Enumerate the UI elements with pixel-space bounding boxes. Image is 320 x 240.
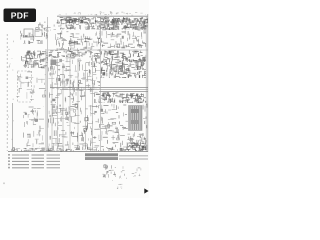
wire left column bus xyxy=(45,49,47,151)
wire right border inner xyxy=(145,16,147,152)
wire horizontal bus A xyxy=(50,87,148,89)
resistor row R1-R12 xyxy=(57,24,148,30)
antenna input wiring xyxy=(20,28,48,45)
parts list row 4 xyxy=(8,164,60,166)
legend symbol column 2 xyxy=(120,166,127,179)
schematic title text bars xyxy=(85,153,118,160)
CRT socket wiring xyxy=(127,132,146,150)
wire left vertical bus xyxy=(12,103,14,151)
wire mid horizontal divider xyxy=(48,49,148,51)
legend footnote marks xyxy=(117,184,122,189)
RGB output cluster xyxy=(101,60,147,78)
legend symbol column 1 xyxy=(102,165,116,181)
PDF badge xyxy=(4,9,37,23)
page margin mark xyxy=(3,183,5,185)
AGC stage Q1 cluster xyxy=(22,50,49,68)
video driver Q2 area xyxy=(16,72,46,100)
colour demodulator row xyxy=(101,50,146,62)
chroma stage dense band xyxy=(49,50,100,57)
svg-text:PDF: PDF xyxy=(11,11,29,21)
tuner input cluster xyxy=(38,22,56,30)
wire vertical bus 1 xyxy=(51,55,53,149)
top edge pin labels xyxy=(59,12,146,16)
parts list row 5 xyxy=(8,167,60,169)
wire top border xyxy=(57,15,148,17)
wire centre divider xyxy=(47,17,49,151)
left margin ticks xyxy=(8,41,14,140)
audio output stage xyxy=(100,31,146,48)
IF amplifier stage T1 coils xyxy=(57,17,148,24)
wire vertical bus 2 xyxy=(57,59,59,149)
wire left dashed border xyxy=(6,34,8,151)
flyback transformer T3 xyxy=(129,106,143,131)
video IF wiring band xyxy=(56,31,100,51)
horizontal drive area xyxy=(100,104,128,150)
wire horizontal bus B xyxy=(60,89,148,91)
shield box dashed xyxy=(18,71,32,102)
output stage dense cluster xyxy=(128,142,146,151)
EHT cage area xyxy=(143,104,147,151)
legend symbol column 3 xyxy=(132,168,141,177)
wire right divider xyxy=(100,17,102,151)
vertical deflection stage xyxy=(48,104,100,150)
sync separator column xyxy=(24,107,45,147)
wire vertical bus 3 xyxy=(62,63,64,149)
wire vertical bus 4 xyxy=(69,55,71,149)
parts list row 1 xyxy=(8,154,60,156)
IC U2 block xyxy=(51,60,57,66)
parts list row 3 xyxy=(8,160,60,162)
wire right border outer xyxy=(147,14,149,152)
sound IF row xyxy=(101,18,146,30)
luminance amp matrix xyxy=(48,57,100,103)
wire vertical bus 5 xyxy=(77,59,79,149)
schematic scan group xyxy=(3,12,148,194)
wire horizontal bus C xyxy=(99,90,148,92)
power supply row xyxy=(100,92,146,103)
transformer T2 box xyxy=(24,29,42,37)
figure caption line xyxy=(119,156,148,159)
wire vertical bus 7 xyxy=(92,55,94,149)
page background xyxy=(0,0,149,198)
wire bottom border xyxy=(8,151,148,153)
parts list row 2 xyxy=(8,157,60,159)
wire vertical bus 6 xyxy=(85,63,87,149)
page turn arrow xyxy=(144,188,148,193)
bottom edge wiring row xyxy=(12,148,128,152)
